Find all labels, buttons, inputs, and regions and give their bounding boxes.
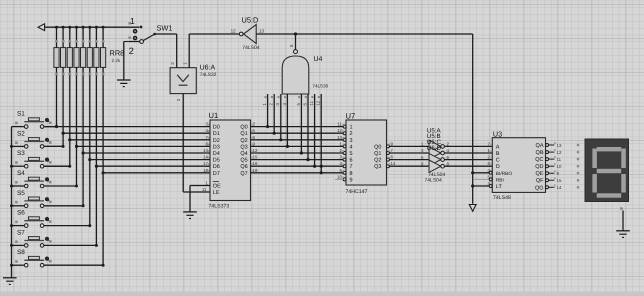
svg-text:Q3: Q3 xyxy=(240,144,247,150)
svg-text:RR8: RR8 xyxy=(110,49,125,58)
svg-text:18: 18 xyxy=(203,168,208,173)
svg-text:QF: QF xyxy=(536,178,544,184)
svg-text:74LS30: 74LS30 xyxy=(312,83,328,88)
svg-text:D0: D0 xyxy=(213,125,220,131)
svg-text:10: 10 xyxy=(557,164,562,169)
svg-text:19: 19 xyxy=(253,168,258,173)
svg-text:11: 11 xyxy=(337,122,342,127)
svg-text:S1: S1 xyxy=(17,111,25,118)
svg-text:S4: S4 xyxy=(17,170,25,177)
svg-text:QG: QG xyxy=(535,185,544,191)
svg-text:11: 11 xyxy=(202,187,207,192)
svg-text:3: 3 xyxy=(350,138,353,144)
svg-text:QB: QB xyxy=(536,150,544,156)
svg-text:8: 8 xyxy=(350,171,353,177)
svg-text:2.2k: 2.2k xyxy=(112,58,121,63)
svg-text:74LS04: 74LS04 xyxy=(425,177,442,183)
svg-text:SW1: SW1 xyxy=(157,23,173,32)
svg-text:74LS48: 74LS48 xyxy=(493,195,511,201)
svg-text:U3: U3 xyxy=(493,129,502,138)
svg-text:S7: S7 xyxy=(17,229,25,236)
svg-text:Q1: Q1 xyxy=(374,151,381,157)
svg-text:5: 5 xyxy=(350,151,353,157)
svg-text:15: 15 xyxy=(253,155,258,160)
svg-text:D3: D3 xyxy=(213,144,220,150)
svg-text:S5: S5 xyxy=(17,190,25,197)
svg-text:B: B xyxy=(496,151,500,157)
svg-text:13: 13 xyxy=(203,148,208,153)
svg-text:D2: D2 xyxy=(213,138,220,144)
svg-text:Q0: Q0 xyxy=(240,125,247,131)
svg-text:Q0: Q0 xyxy=(374,144,381,150)
svg-text:D5: D5 xyxy=(213,158,220,164)
svg-text:14: 14 xyxy=(391,161,396,166)
svg-text:7: 7 xyxy=(350,164,353,170)
svg-text:LE: LE xyxy=(213,190,220,196)
svg-text:OE: OE xyxy=(213,184,221,190)
svg-text:QD: QD xyxy=(535,164,543,170)
svg-text:17: 17 xyxy=(203,161,208,166)
svg-text:LT: LT xyxy=(496,184,503,190)
svg-text:U5:D: U5:D xyxy=(242,16,259,25)
svg-text:Q2: Q2 xyxy=(374,158,381,164)
svg-text:2: 2 xyxy=(350,131,353,137)
svg-text:12: 12 xyxy=(557,150,562,155)
svg-text:14: 14 xyxy=(203,155,208,160)
svg-text:1: 1 xyxy=(130,16,135,26)
svg-text:Q3: Q3 xyxy=(374,164,381,170)
svg-text:Q6: Q6 xyxy=(240,164,247,170)
svg-text:S6: S6 xyxy=(17,210,25,217)
svg-text:10: 10 xyxy=(337,174,342,179)
svg-text:U7: U7 xyxy=(346,111,356,120)
svg-text:U4: U4 xyxy=(314,56,323,63)
svg-text:12: 12 xyxy=(337,128,342,133)
svg-text:QE: QE xyxy=(536,171,544,177)
svg-text:13: 13 xyxy=(557,143,562,148)
svg-text:14: 14 xyxy=(557,185,562,190)
svg-text:D6: D6 xyxy=(213,164,220,170)
svg-text:1: 1 xyxy=(350,125,353,131)
svg-text:QA: QA xyxy=(536,143,544,149)
svg-text:Q5: Q5 xyxy=(240,158,247,164)
svg-text:U5:D: U5:D xyxy=(427,145,442,152)
svg-text:Q1: Q1 xyxy=(240,131,247,137)
svg-text:Q2: Q2 xyxy=(240,138,247,144)
svg-text:BI/RBO: BI/RBO xyxy=(496,171,513,177)
svg-text:S8: S8 xyxy=(17,249,25,256)
svg-text:D4: D4 xyxy=(213,151,220,157)
svg-text:16: 16 xyxy=(253,161,258,166)
svg-text:2: 2 xyxy=(129,46,134,56)
svg-text:12: 12 xyxy=(253,148,258,153)
svg-text:Q4: Q4 xyxy=(240,151,247,157)
svg-text:QC: QC xyxy=(535,157,543,163)
svg-text:12: 12 xyxy=(316,100,321,105)
svg-text:D7: D7 xyxy=(213,171,220,177)
svg-text:U1: U1 xyxy=(209,111,219,120)
svg-text:C: C xyxy=(496,158,500,164)
svg-text:9: 9 xyxy=(350,177,353,183)
svg-text:U6:A: U6:A xyxy=(200,65,216,72)
svg-text:74HC147: 74HC147 xyxy=(346,189,368,195)
svg-text:D: D xyxy=(496,164,500,170)
svg-text:D1: D1 xyxy=(213,131,220,137)
svg-text:13: 13 xyxy=(337,135,342,140)
svg-text:11: 11 xyxy=(557,157,562,162)
svg-text:15: 15 xyxy=(557,178,562,183)
svg-text:74LS32: 74LS32 xyxy=(200,72,217,78)
svg-text:Q7: Q7 xyxy=(240,171,247,177)
svg-text:74LS373: 74LS373 xyxy=(209,204,230,210)
svg-text:RBI: RBI xyxy=(496,177,504,183)
svg-text:S3: S3 xyxy=(17,150,25,157)
svg-text:A: A xyxy=(496,144,500,150)
svg-text:74LS04: 74LS04 xyxy=(242,45,259,51)
svg-text:12: 12 xyxy=(231,28,237,33)
svg-text:6: 6 xyxy=(350,158,353,164)
svg-text:13: 13 xyxy=(259,28,265,33)
svg-text:4: 4 xyxy=(350,144,353,150)
svg-text:11: 11 xyxy=(309,100,314,105)
svg-text:S2: S2 xyxy=(17,130,25,137)
